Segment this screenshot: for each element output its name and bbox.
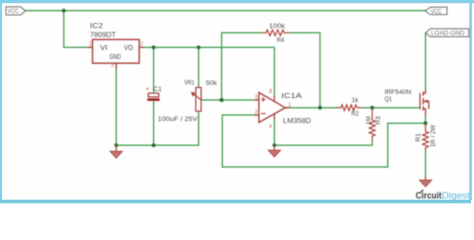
- svg-text:Q1: Q1: [385, 96, 393, 103]
- svg-text:4: 4: [269, 124, 272, 130]
- svg-text:VR1: VR1: [184, 80, 195, 87]
- svg-text:3: 3: [111, 63, 114, 69]
- svg-text:100uF / 25V: 100uF / 25V: [158, 116, 198, 123]
- svg-text:1M: 1M: [366, 116, 373, 125]
- svg-text:8: 8: [269, 89, 272, 95]
- svg-text:LOAD-GND: LOAD-GND: [431, 30, 465, 37]
- svg-text:R1: R1: [415, 133, 422, 142]
- svg-text:C1: C1: [153, 86, 162, 93]
- svg-text:R3: R3: [375, 116, 382, 125]
- svg-text:VCC: VCC: [8, 8, 19, 15]
- svg-text:2: 2: [255, 109, 258, 115]
- svg-text:R2: R2: [351, 110, 359, 117]
- svg-text:VCC: VCC: [431, 8, 442, 15]
- svg-text:1R / 2W: 1R / 2W: [430, 124, 437, 147]
- svg-text:GND: GND: [110, 54, 122, 61]
- svg-text:IC1A: IC1A: [281, 93, 302, 100]
- svg-text:VO: VO: [124, 45, 134, 52]
- svg-text:1k: 1k: [352, 97, 360, 104]
- svg-text:7809DT: 7809DT: [90, 32, 117, 39]
- svg-text:100k: 100k: [269, 23, 286, 30]
- svg-text:VI: VI: [100, 45, 108, 52]
- svg-text:2: 2: [140, 42, 143, 48]
- svg-text:CircuitDigest: CircuitDigest: [416, 191, 471, 202]
- svg-text:IC2: IC2: [90, 23, 103, 30]
- svg-text:3: 3: [255, 94, 258, 100]
- svg-text:LM358D: LM358D: [283, 118, 311, 125]
- svg-text:1: 1: [89, 42, 92, 48]
- svg-text:1: 1: [288, 103, 291, 109]
- svg-text:R4: R4: [277, 37, 285, 44]
- svg-text:+: +: [145, 86, 149, 93]
- svg-text:50k: 50k: [206, 80, 218, 87]
